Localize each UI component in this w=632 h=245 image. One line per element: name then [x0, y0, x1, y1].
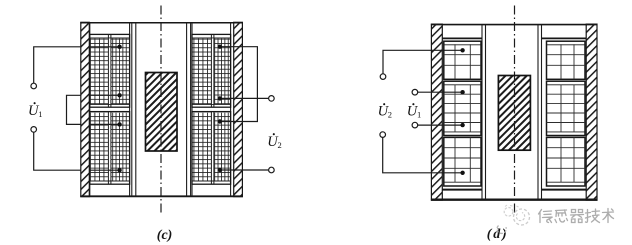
junction dot c-R4 — [218, 168, 222, 172]
top flange left (d) — [442, 37, 482, 39]
winding block D1 — [444, 41, 481, 79]
right coil column (d) : three winding blocks — [547, 41, 586, 186]
label U1 (c) — [28, 102, 43, 119]
housing wall right (d) — [586, 24, 597, 200]
bobbin tube wall right (d) — [537, 25, 539, 200]
junction dot c-L1 — [117, 45, 121, 49]
junction dot c-R1 — [218, 45, 222, 49]
winding W2 bottom block — [90, 112, 130, 185]
char 感 — [555, 210, 568, 223]
svg-text:(d): (d) — [487, 227, 509, 242]
svg-text:1: 1 — [38, 109, 42, 119]
movable iron core (d) — [498, 76, 530, 151]
junction dot c-R3 — [218, 119, 222, 123]
wire to terminal U2a — [220, 97, 269, 99]
bobbin cheek lines right column (c) — [191, 23, 193, 196]
housing wall right (c) — [234, 22, 243, 196]
terminal TR2 — [269, 167, 275, 173]
winding block D6 — [547, 137, 586, 186]
char 技 — [586, 209, 600, 223]
svg-text:2: 2 — [388, 110, 392, 120]
junction dot d-3 — [460, 123, 464, 127]
left coil column (d) : three winding blocks — [444, 41, 481, 186]
frame top plate (c) — [80, 22, 243, 24]
bottom flange right (d) — [542, 189, 587, 191]
bobbin tube wall left (d) — [481, 25, 483, 200]
winding block D5 — [547, 81, 586, 135]
winding W4 bottom block — [192, 112, 231, 185]
wire to terminal U2b — [220, 169, 269, 171]
bottom flange left (d) — [442, 189, 482, 191]
terminal TR1 — [269, 96, 275, 102]
winding block D4 — [547, 41, 586, 79]
label U2 (c) — [267, 133, 282, 150]
winding block D2 — [444, 81, 481, 135]
junction dot c-L2 — [117, 93, 121, 97]
watermark text 传感器技术 — [539, 209, 614, 223]
bobbin tube wall right (c) — [186, 23, 188, 196]
winding W3 top block — [192, 34, 231, 107]
svg-text:(c): (c) — [157, 228, 173, 243]
junction dot c-L3 — [117, 122, 121, 126]
wire tap1 left — [34, 47, 81, 83]
frame top plate (d) — [431, 24, 598, 26]
svg-text:2: 2 — [278, 140, 282, 150]
centerline (d) — [514, 6, 516, 215]
wire mid bracket left — [67, 95, 81, 124]
junction dot d-2 — [460, 90, 464, 94]
top flange right (d) — [542, 37, 587, 39]
terminal T2 (d) — [412, 89, 418, 95]
housing wall left (c) — [81, 22, 90, 196]
char 传 — [539, 210, 553, 223]
bobbin cheek lines left column (c) — [89, 23, 91, 196]
wire tap2 (d) — [418, 91, 463, 93]
terminal T3 (d) — [412, 122, 418, 128]
terminal TL2 — [31, 127, 37, 133]
centerline (c) — [160, 6, 162, 216]
winding block D3 — [444, 137, 481, 186]
terminal T1 (d) — [380, 74, 386, 80]
wire tap1 (d) — [383, 50, 463, 73]
bobbin tube wall left (c) — [131, 23, 133, 196]
junction dot c-L4 — [117, 168, 121, 172]
watermark logo — [497, 205, 529, 233]
frame bottom plate (d) — [431, 198, 598, 200]
label U2 (d) — [378, 103, 392, 120]
junction dot d-1 — [460, 48, 464, 52]
movable iron core (c) — [146, 73, 178, 152]
wire tap3 (d) — [418, 124, 463, 126]
wire tap4 left — [34, 132, 81, 170]
wire tap4 (d) — [383, 137, 463, 172]
svg-text:1: 1 — [417, 110, 421, 120]
wire series U right — [220, 47, 258, 122]
junction dot c-R2 — [218, 96, 222, 100]
char 术 — [603, 209, 614, 223]
terminal T4 (d) — [380, 132, 386, 138]
winding W1 top block — [90, 34, 130, 107]
housing wall left (d) — [431, 24, 442, 200]
junction dot d-4 — [460, 171, 464, 175]
left coil column (c) : two winding blocks — [90, 23, 130, 196]
right coil column (c) : two winding blocks — [192, 23, 231, 196]
terminal TL1 — [31, 83, 37, 89]
frame bottom plate (c) — [80, 195, 243, 197]
label U1 (d) — [407, 103, 421, 120]
char 器 — [571, 210, 584, 223]
